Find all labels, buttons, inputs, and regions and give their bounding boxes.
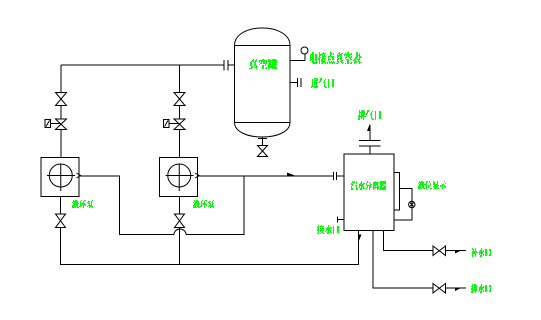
wire makeup water 补水口 xyxy=(384,231,466,251)
separator box 汽水分离器 xyxy=(344,154,394,231)
solenoid actuator box xyxy=(45,120,51,128)
vessel tank body 真空罐 xyxy=(235,46,291,123)
arrow makeup xyxy=(455,251,461,254)
label 真空罐 xyxy=(249,59,277,69)
label 排气口 xyxy=(358,110,381,120)
tank top dome xyxy=(235,28,291,46)
wire to riser xyxy=(186,176,244,235)
arrow drain outlet xyxy=(455,288,461,291)
tank bottom dome xyxy=(235,123,291,138)
level gauge standpipe xyxy=(394,173,400,211)
level gauge loop xyxy=(394,189,412,221)
wire branch2 vertical xyxy=(179,65,181,158)
valve V1b (solenoid) xyxy=(56,119,67,130)
wire pump1 discharge xyxy=(79,176,174,235)
pump P2 outlet arrow xyxy=(195,173,199,178)
gauge line xyxy=(290,54,305,61)
flange at separator inlet xyxy=(334,172,345,180)
pump P1 body xyxy=(41,158,79,197)
valve V2b (solenoid) xyxy=(174,119,185,130)
pump P1 impeller circle xyxy=(49,164,72,187)
label 液位显示 xyxy=(418,181,446,189)
wire hop over pump2 drain xyxy=(174,229,186,235)
label 排水口 xyxy=(471,284,491,293)
sight glass circle xyxy=(409,201,415,207)
tank drain stub xyxy=(258,137,267,146)
label 进气口 xyxy=(311,78,334,88)
label 电接点真空表 xyxy=(310,52,361,64)
wire drain down xyxy=(61,228,359,265)
valve makeup xyxy=(433,246,446,256)
label 补水口 xyxy=(472,248,491,257)
pump P2 body xyxy=(160,158,198,197)
wire branch1 vertical xyxy=(60,65,62,158)
inlet nozzle flange xyxy=(290,78,301,87)
pump1 inlet valve xyxy=(56,214,66,228)
label 液环泵 xyxy=(193,200,214,208)
label 汽水分离器 xyxy=(351,181,386,190)
solenoid actuator box 2 xyxy=(164,120,170,128)
pump2 bottom line xyxy=(179,197,181,265)
label 接水口 xyxy=(317,225,339,234)
flow arrow right xyxy=(287,173,296,177)
pump P1 outlet arrow xyxy=(77,173,81,178)
gauge circle 电接点真空表 xyxy=(301,47,308,54)
pump2 inlet valve xyxy=(175,214,185,228)
pump P2 impeller circle xyxy=(168,164,191,187)
flange at tank inlet xyxy=(224,60,235,71)
drain flow arrow down xyxy=(359,235,362,243)
nozzle 接水口 xyxy=(338,217,345,223)
wire discharge header xyxy=(198,175,333,177)
valve drain outlet xyxy=(433,284,446,294)
label 液环泵 xyxy=(72,200,93,208)
valve V1a xyxy=(56,93,67,106)
wire suction header xyxy=(61,64,224,66)
valve V2a xyxy=(174,93,185,106)
exhaust arrow up xyxy=(367,124,370,132)
exhaust stack xyxy=(359,125,381,154)
wire drain outlet 排水口 xyxy=(373,231,466,289)
tank drain valve xyxy=(258,146,268,157)
